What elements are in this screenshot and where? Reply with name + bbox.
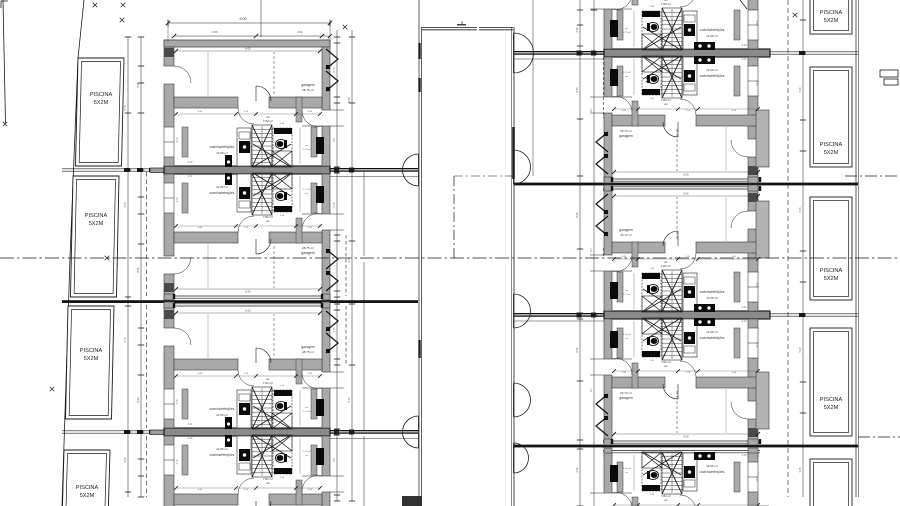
right pair 1 lower unit stair landing with cross bracing bbox=[642, 56, 662, 72]
svg-text:2.30: 2.30 bbox=[575, 27, 579, 33]
svg-text:9.15: 9.15 bbox=[347, 257, 351, 263]
left pair 1 upper unit garden wall dark block bbox=[164, 48, 174, 57]
svg-text:garagem: garagem bbox=[619, 134, 633, 138]
left pair 1 lower unit kitchen hob/sink unit at party wall bbox=[225, 173, 232, 185]
svg-text:PISCINA: PISCINA bbox=[76, 485, 99, 491]
svg-text:28.75 m²: 28.75 m² bbox=[302, 246, 314, 250]
svg-text:7.82 m²: 7.82 m² bbox=[661, 264, 671, 268]
left pair 1 lower unit staircase with treads and diagonals bbox=[252, 173, 291, 215]
right pair 2 lower unit kitchen hob/sink unit at party wall bbox=[694, 318, 715, 326]
right pair 1 lower unit closet partition at entry bbox=[617, 66, 623, 96]
svg-text:garagem: garagem bbox=[619, 228, 633, 232]
right plot fence at second party wall (east side) bbox=[758, 313, 858, 318]
svg-text:4.40: 4.40 bbox=[742, 454, 747, 457]
left pair 2 lower unit wc sink counter bbox=[274, 468, 292, 474]
left pair 1 lower unit closet duct block bbox=[316, 186, 324, 203]
left pair 2 lower unit kitchen counter with appliances bbox=[237, 436, 251, 474]
svg-text:arr.: arr. bbox=[625, 27, 629, 30]
right pool 3 (PISCINA 5X2M) bbox=[810, 197, 852, 300]
left pair 2 party wall bbox=[164, 428, 330, 436]
right lower extra unit staircase with treads and diagonals bbox=[643, 452, 682, 494]
left pair 1 upper unit closet partition bbox=[182, 127, 188, 157]
svg-text:PISCINA: PISCINA bbox=[90, 92, 113, 98]
svg-text:5X2M: 5X2M bbox=[84, 356, 99, 362]
svg-text:PISCINA: PISCINA bbox=[820, 268, 843, 274]
corridor west edge double line bbox=[418, 0, 420, 506]
right pair 1 lower unit corridor-side outer wall bbox=[604, 57, 612, 183]
svg-text:cozinha/refeições: cozinha/refeições bbox=[700, 336, 725, 340]
left pair 1 lower unit garage interior dimension line bbox=[176, 288, 320, 290]
right pair 2 upper unit kitchen counter with appliances bbox=[683, 273, 697, 311]
svg-text:5.10: 5.10 bbox=[798, 87, 802, 93]
svg-text:4.40: 4.40 bbox=[742, 306, 747, 309]
left pair 1 upper unit window shutters (sawtooth) on street wall bbox=[326, 49, 338, 91]
svg-text:3.10: 3.10 bbox=[176, 197, 179, 202]
right pair 1 upper unit entrance porch steps bbox=[590, 8, 604, 10]
left pair 1 upper unit garage interior dimension line bbox=[176, 50, 320, 52]
svg-text:1.70 m²: 1.70 m² bbox=[303, 188, 311, 191]
gate arc to left plot 2 bbox=[403, 416, 419, 448]
left building block bbox=[0, 0, 1, 1]
right pair 1 upper unit wc toilet bbox=[648, 22, 659, 31]
corridor east edge wall bar bbox=[512, 127, 515, 179]
left pair 2 lower unit garage interior door + swing arc bbox=[256, 501, 271, 506]
svg-text:7.82 m²: 7.82 m² bbox=[263, 119, 273, 123]
svg-text:28.75 m²: 28.75 m² bbox=[302, 88, 314, 92]
walkway edge line left court yard bbox=[363, 172, 365, 256]
left plot fence at first party wall (west side) bbox=[62, 168, 164, 173]
left pair 2 upper unit rooms interior dimension line bbox=[176, 375, 320, 377]
svg-text:8.06: 8.06 bbox=[683, 435, 689, 439]
right lower extra unit closet partition at entry bbox=[617, 462, 623, 492]
left pair 1 lower unit corridor-side outer wall bbox=[322, 174, 330, 300]
svg-text:wc: wc bbox=[664, 364, 668, 368]
right pair 2 upper unit closet partition at entry bbox=[617, 272, 623, 302]
svg-text:4.40: 4.40 bbox=[188, 175, 193, 178]
right pair 1 lower unit closet partition bbox=[734, 66, 740, 96]
svg-text:2.9: 2.9 bbox=[332, 458, 336, 462]
svg-text:12.06 m²: 12.06 m² bbox=[706, 68, 718, 72]
svg-text:9.7: 9.7 bbox=[589, 248, 593, 252]
right pair 1 lower unit garage centre dashed line bbox=[676, 129, 678, 171]
left pair 2 lower unit outer side wall (garden side) bbox=[164, 436, 174, 506]
right pair 1 lower unit kitchen counter with appliances bbox=[683, 57, 697, 95]
dimension chain left court inner bbox=[334, 30, 340, 501]
left pair 1 lower unit garage / rooms dividing wall bbox=[174, 232, 322, 243]
left pair 2 upper unit wc dashed enclosure bbox=[273, 390, 292, 428]
right pair 1 lower unit wc dashed enclosure bbox=[642, 57, 661, 95]
left pair 2 upper unit wc toilet bbox=[276, 401, 287, 410]
right lower extra unit wc dashed enclosure bbox=[642, 453, 661, 491]
svg-text:26.72 m²: 26.72 m² bbox=[620, 129, 632, 133]
left pair 1 upper unit corridor-side outer wall bbox=[322, 40, 330, 166]
svg-text:7.82 m²: 7.82 m² bbox=[661, 98, 671, 102]
dash-dot line corridor upper bbox=[454, 175, 514, 177]
right pair 2 upper unit outer side wall (garden side) bbox=[748, 185, 758, 311]
right pair 1 upper unit closet partition bbox=[734, 10, 740, 40]
right pair 1 upper unit hall/entry divider wall bbox=[632, 0, 638, 5]
right lower extra unit wc sink counter bbox=[642, 485, 660, 491]
left pair 2 lower unit rooms interior dimension line bbox=[176, 487, 320, 489]
left pair 1 upper unit garage side door swing bbox=[174, 66, 191, 83]
left pair 1 upper unit closet partition at entry bbox=[311, 127, 317, 157]
left pair 2 lower unit wc dashed enclosure bbox=[273, 436, 292, 474]
corridor west edge wall bars bbox=[418, 43, 420, 59]
right plot fence at second party wall (court side) bbox=[514, 313, 604, 318]
right pair 1 lower unit stair dimension line bbox=[671, 58, 673, 97]
right pair 2 lower unit staircase with treads and diagonals bbox=[643, 318, 682, 360]
svg-text:7.82 m²: 7.82 m² bbox=[263, 215, 273, 219]
left pair 2 upper unit wc sink counter bbox=[274, 390, 292, 396]
dashed plot line right of building bbox=[787, 0, 789, 497]
svg-text:garagem: garagem bbox=[301, 345, 315, 349]
right pair 2 lower unit closet duct block bbox=[610, 331, 618, 348]
right pair 1 lower unit staircase with treads and diagonals bbox=[643, 56, 682, 98]
svg-text:5X2M: 5X2M bbox=[80, 493, 95, 499]
right pair 2 lower unit wc dashed enclosure bbox=[642, 319, 661, 357]
chain dimension texts bbox=[123, 27, 802, 473]
dash-dot boundary segment right lower bbox=[858, 436, 900, 438]
right pair 2 lower unit outer side wall (garden side) bbox=[748, 319, 758, 445]
right pair 2 lower unit corridor-side outer wall bbox=[604, 319, 612, 445]
right pair 2 upper unit garden wall dark block bbox=[748, 193, 758, 202]
right pair 2 upper unit kitchen hob/sink unit at party wall bbox=[694, 304, 715, 312]
svg-text:3.10: 3.10 bbox=[176, 399, 179, 404]
svg-text:3.10: 3.10 bbox=[176, 137, 179, 142]
svg-text:5.75: 5.75 bbox=[123, 105, 127, 111]
right plot fence at first party wall (east side) bbox=[758, 51, 858, 56]
svg-text:1.70 m²: 1.70 m² bbox=[303, 148, 311, 151]
dashed divider in left court yard bbox=[345, 235, 347, 296]
right pair 2 upper unit wc toilet bbox=[648, 284, 659, 293]
right pair 1 lower unit garage interior door + swing arc bbox=[663, 122, 678, 137]
left pair 1 lower unit stair landing with cross bracing bbox=[272, 173, 292, 189]
svg-text:9.7: 9.7 bbox=[589, 388, 593, 392]
left pair 1 upper unit far end wall (garage front) bbox=[164, 40, 330, 47]
right lower extra unit closet duct block bbox=[610, 465, 618, 482]
right pair 2 upper unit hall/entry divider wall bbox=[632, 242, 638, 267]
right pool 2 (PISCINA 5X2M) bbox=[810, 67, 852, 167]
left pair 1 lower unit garden wall dark block bbox=[164, 283, 174, 292]
right pair 2 upper unit stair dimension line bbox=[671, 271, 673, 310]
right pair 1 upper unit staircase with treads and diagonals bbox=[643, 8, 682, 50]
left pair 2 upper unit window shutters (sawtooth) on street wall bbox=[326, 311, 338, 353]
right pair 2 lower unit rooms interior dimension line bbox=[614, 370, 758, 372]
right pair 2 lower unit stair dimension line bbox=[671, 320, 673, 359]
east boundary gate symbol bbox=[880, 70, 898, 85]
gate arc to right plot 4 bbox=[514, 383, 531, 417]
svg-text:1.70 m²: 1.70 m² bbox=[623, 467, 631, 470]
svg-text:5X2M: 5X2M bbox=[824, 150, 839, 156]
svg-text:wc: wc bbox=[266, 219, 270, 223]
svg-text:1.70 m²: 1.70 m² bbox=[623, 31, 631, 34]
svg-text:cozinha/refeições: cozinha/refeições bbox=[700, 290, 725, 294]
svg-text:5X2M: 5X2M bbox=[824, 405, 839, 411]
left pair 2 lower unit stair dimension line bbox=[261, 437, 263, 476]
svg-text:3.10: 3.10 bbox=[755, 21, 758, 26]
right pair 1 lower unit far end wall (garage front) bbox=[604, 177, 761, 183]
left pair 2 upper unit staircase with treads and diagonals bbox=[252, 387, 291, 429]
left pair 2 upper unit hall door to kitchen + swing arc bbox=[238, 370, 254, 386]
right pair 2 lower unit front entrance door swing bbox=[612, 358, 632, 375]
right pair 2 lower unit hall interior dimension line bbox=[633, 321, 635, 357]
svg-text:7.82 m²: 7.82 m² bbox=[661, 360, 671, 364]
right lower extra unit closet partition bbox=[734, 462, 740, 492]
svg-text:5.10: 5.10 bbox=[798, 347, 802, 353]
right pair 1 lower unit window shutters (sawtooth) on street wall bbox=[596, 132, 608, 174]
left pair 2 lower unit corridor-side outer wall bbox=[322, 436, 330, 506]
left pool 3 (PISCINA 5X2M) bbox=[66, 306, 115, 419]
right pair 1 lower unit garage / rooms dividing wall bbox=[612, 115, 760, 126]
right building extra lower unit top wall bbox=[604, 448, 760, 457]
dashed divider in left pool strip bbox=[146, 172, 148, 296]
left pair 1 lower unit hall interior dimension line bbox=[299, 176, 301, 212]
svg-text:cozinha/refeições: cozinha/refeições bbox=[210, 145, 235, 149]
svg-text:cozinha/refeições: cozinha/refeições bbox=[700, 470, 725, 474]
right pair 2 lower unit hall/entry divider wall bbox=[632, 363, 638, 388]
right pair 1 upper unit wc dashed enclosure bbox=[642, 11, 661, 49]
right pair 1 upper unit closet duct block bbox=[610, 20, 618, 37]
left pair 2 upper unit hall interior dimension line bbox=[299, 390, 301, 426]
right pair 2 upper unit garage / rooms dividing wall bbox=[612, 242, 760, 253]
left pair 1 lower unit kitchen counter with appliances bbox=[237, 174, 251, 212]
right pair 2 lower unit stair landing with cross bracing bbox=[642, 318, 662, 334]
svg-text:5.75: 5.75 bbox=[123, 337, 127, 343]
right pair 2 upper unit closet partition bbox=[734, 272, 740, 302]
svg-text:wc: wc bbox=[664, 102, 668, 106]
right lower extra unit outer side wall (garden side) bbox=[748, 453, 758, 506]
yard offset line below left party fence 1 bbox=[330, 176, 418, 178]
svg-text:3.10: 3.10 bbox=[123, 457, 127, 463]
corridor top cap bbox=[422, 22, 513, 30]
right pair 2 upper unit window shutters (sawtooth) on street wall bbox=[596, 194, 608, 236]
svg-text:8.06: 8.06 bbox=[245, 309, 251, 313]
svg-text:arr.: arr. bbox=[625, 337, 629, 340]
right pair 2 upper unit entrance porch steps bbox=[590, 270, 604, 272]
svg-text:8.06: 8.06 bbox=[683, 173, 689, 177]
right pair 1 lower unit outer side wall (garden side) bbox=[748, 57, 758, 183]
svg-text:PISCINA: PISCINA bbox=[820, 10, 843, 16]
pool enclosure east edge double line bbox=[855, 0, 857, 497]
right pair 1 lower unit entrance porch steps bbox=[590, 96, 604, 98]
left pair 2 upper unit closet duct block bbox=[316, 399, 324, 416]
right pair 1 lower unit rooms interior dimension line bbox=[614, 108, 758, 110]
yard offset line below left party fence 2 bbox=[330, 438, 418, 440]
left pair 1 upper unit kitchen hob/sink unit at party wall bbox=[225, 155, 232, 167]
right pair 2 upper unit stair landing with cross bracing bbox=[642, 296, 662, 312]
svg-text:9.7: 9.7 bbox=[589, 108, 593, 112]
svg-text:5X2M: 5X2M bbox=[824, 18, 839, 24]
left pair 2 lower unit hall/entry divider wall bbox=[296, 480, 302, 505]
left pair 1 lower unit closet partition at entry bbox=[311, 183, 317, 213]
svg-text:cozinha/refeições: cozinha/refeições bbox=[210, 453, 235, 457]
svg-text:cozinha/refeições: cozinha/refeições bbox=[210, 407, 235, 411]
right pair 2 lower unit garage centre dashed line bbox=[676, 391, 678, 433]
left pair 1 upper unit wc dashed enclosure bbox=[273, 128, 292, 166]
svg-text:garagem: garagem bbox=[301, 83, 315, 87]
survey cross near right pool 1 bbox=[793, 13, 798, 18]
left pair 2 upper unit outer side wall (garden side) bbox=[164, 302, 174, 428]
right lower extra unit hall door to kitchen + swing arc bbox=[680, 495, 696, 506]
right boundary fence at lower garages (heavy) bbox=[514, 445, 858, 448]
svg-text:wc: wc bbox=[664, 498, 668, 502]
svg-text:8.06: 8.06 bbox=[245, 47, 251, 51]
walkway edge line right court yard bbox=[532, 0, 534, 176]
left pair 1 lower unit hall/entry divider wall bbox=[296, 218, 302, 243]
right pair 2 upper unit garage interior dimension line bbox=[614, 195, 758, 197]
left pair 2 upper unit closet partition bbox=[182, 389, 188, 419]
svg-text:1.70 m²: 1.70 m² bbox=[623, 71, 631, 74]
right pair 1 lower unit garden porch stub wall bbox=[756, 110, 769, 167]
left pair 2 lower unit wc toilet bbox=[276, 453, 287, 462]
right lower extra unit rooms interior dimension line bbox=[614, 504, 758, 506]
right pair 1 upper unit kitchen hob/sink unit at party wall bbox=[694, 42, 715, 50]
svg-text:arr.: arr. bbox=[625, 289, 629, 292]
left pair 2 lower unit staircase with treads and diagonals bbox=[252, 435, 291, 477]
right pair 2 upper unit far end wall (garage front) bbox=[604, 185, 761, 191]
left pair 1 upper unit kitchen counter with appliances bbox=[237, 128, 251, 166]
svg-text:4.40: 4.40 bbox=[742, 44, 747, 47]
left pair 1 lower unit front entrance door swing bbox=[302, 213, 322, 230]
right pair 2 lower unit garage interior door + swing arc bbox=[663, 384, 678, 399]
right lower extra unit interior dimension annotations bbox=[622, 454, 758, 506]
left pair 1 upper unit stair landing with cross bracing bbox=[272, 151, 292, 167]
right pair 2 upper unit garage centre dashed line bbox=[676, 197, 678, 239]
dash-dot axis vertical in corridor bbox=[453, 176, 455, 258]
svg-text:2.9: 2.9 bbox=[332, 138, 336, 142]
right pair 2 upper unit rooms interior dimension line bbox=[614, 258, 758, 260]
svg-text:8.35: 8.35 bbox=[136, 82, 140, 88]
left pool 2 (PISCINA 5X2M) bbox=[71, 176, 120, 297]
right pair 1 upper unit hall door to kitchen + swing arc bbox=[680, 0, 696, 7]
svg-text:6.45: 6.45 bbox=[575, 212, 579, 218]
left pair 2 upper unit garage interior dimension line bbox=[176, 312, 320, 314]
svg-text:wc: wc bbox=[266, 481, 270, 485]
left pair 1 lower unit wc toilet bbox=[276, 191, 287, 200]
gate arc to right plot 5 bbox=[514, 443, 529, 473]
svg-text:PISCINA: PISCINA bbox=[85, 213, 108, 219]
survey cross at road edge end bbox=[3, 122, 8, 127]
right pool 1 (PISCINA 5X2M) bbox=[810, 0, 852, 34]
svg-text:1.70 m²: 1.70 m² bbox=[303, 410, 311, 413]
svg-text:12.06 m²: 12.06 m² bbox=[706, 464, 718, 468]
gate arc to left plot 1 bbox=[403, 154, 419, 186]
right pair 1 upper unit stair landing with cross bracing bbox=[642, 34, 662, 50]
left pair 2 lower unit kitchen hob/sink unit at party wall bbox=[225, 435, 232, 447]
svg-text:arr.: arr. bbox=[625, 75, 629, 78]
left pair 2 lower unit entrance porch steps bbox=[330, 475, 344, 477]
left pair 2 upper unit far end wall (garage front) bbox=[164, 302, 330, 308]
left pair 1 lower unit entrance porch steps bbox=[330, 213, 344, 215]
svg-text:5X2M: 5X2M bbox=[824, 276, 839, 282]
svg-text:garagem: garagem bbox=[301, 251, 315, 255]
svg-text:3.10: 3.10 bbox=[123, 202, 127, 208]
left pair 2 lower unit hall interior dimension line bbox=[299, 438, 301, 474]
right lower extra unit stair dimension line bbox=[671, 454, 673, 493]
right pair 2 upper unit front entrance door swing bbox=[612, 255, 632, 272]
extension line from party axis to top edge bbox=[260, 0, 262, 37]
svg-text:3.10: 3.10 bbox=[755, 81, 758, 86]
corridor east edge double line bbox=[511, 27, 513, 506]
survey cross near building top right bbox=[343, 25, 348, 30]
left pair 1 upper unit hall door to kitchen + swing arc bbox=[238, 108, 254, 124]
svg-text:5.75: 5.75 bbox=[332, 202, 336, 208]
left pair 2 lower unit garage / rooms dividing wall bbox=[174, 494, 322, 505]
left pair 1 upper unit rooms interior dimension line bbox=[176, 113, 320, 115]
left pair 2 upper unit garage centre dashed line bbox=[273, 314, 275, 356]
svg-text:12.06 m²: 12.06 m² bbox=[706, 330, 718, 334]
right pair 2 lower unit entrance porch steps bbox=[590, 358, 604, 360]
boundary tick top right corner bbox=[740, 0, 747, 9]
gate arc to right plot 1 bbox=[514, 33, 534, 73]
right pair 1 upper unit front entrance door swing bbox=[612, 0, 632, 10]
right pair 1 upper unit corridor-side outer wall bbox=[604, 0, 612, 49]
main dash-dot site axis horizontal bbox=[0, 257, 900, 259]
dash-dot boundary segment right at first party level bbox=[845, 175, 900, 177]
left pair 1 upper unit staircase with treads and diagonals bbox=[252, 125, 291, 167]
left pair 2 upper unit stair landing with cross bracing bbox=[272, 413, 292, 429]
svg-text:4.40: 4.40 bbox=[742, 320, 747, 323]
right pair 1 lower unit garage interior dimension line bbox=[614, 171, 758, 173]
right pair 2 lower unit window shutters (sawtooth) on street wall bbox=[596, 394, 608, 436]
svg-text:3.10: 3.10 bbox=[755, 477, 758, 482]
left pair 1 upper unit outer side wall (garden side) bbox=[164, 40, 174, 166]
svg-text:3.15: 3.15 bbox=[798, 207, 802, 213]
svg-text:5X2M: 5X2M bbox=[94, 100, 109, 106]
right pair 2 lower unit wc sink counter bbox=[642, 351, 660, 357]
right pool 5 (PISCINA 5X2M) bbox=[810, 459, 852, 506]
right pair 2 party wall bbox=[604, 311, 770, 319]
left pool 1 (PISCINA 5X2M) bbox=[76, 58, 125, 166]
svg-text:26.72 m²: 26.72 m² bbox=[620, 233, 632, 237]
left pair 1 lower unit closet partition bbox=[182, 183, 188, 213]
right pair 1 lower unit wc sink counter bbox=[642, 89, 660, 95]
right pair 2 upper unit staircase with treads and diagonals bbox=[643, 270, 682, 312]
dimension chain right court inner bbox=[577, 0, 583, 506]
svg-text:PISCINA: PISCINA bbox=[820, 397, 843, 403]
right pair 2 lower unit garden wall dark block bbox=[748, 428, 758, 437]
left pair 1 party wall bbox=[164, 166, 330, 174]
left pair 1 upper unit front entrance door swing bbox=[302, 110, 322, 127]
right boundary fence between garages (heavy) bbox=[514, 183, 858, 186]
svg-text:garagem: garagem bbox=[619, 396, 633, 400]
gate arc to right plot 2 bbox=[514, 150, 531, 184]
left pair 2 upper unit kitchen hob/sink unit at party wall bbox=[225, 417, 232, 429]
gate arc to right plot 3 bbox=[514, 294, 531, 328]
svg-text:5.75: 5.75 bbox=[332, 327, 336, 333]
left pair 1 upper unit garage centre dashed line bbox=[273, 52, 275, 94]
left pair 2 lower unit hall door to kitchen + swing arc bbox=[238, 478, 254, 494]
svg-text:9.15: 9.15 bbox=[347, 97, 351, 103]
right pair 2 upper unit garage side door swing bbox=[731, 211, 748, 228]
left pair 1 upper unit wc toilet bbox=[276, 139, 287, 148]
dimension chain west inner bbox=[138, 37, 144, 497]
svg-text:1.70 m²: 1.70 m² bbox=[623, 333, 631, 336]
svg-text:12.66 m²: 12.66 m² bbox=[216, 185, 228, 189]
svg-text:arr.: arr. bbox=[305, 192, 309, 195]
svg-text:5.75: 5.75 bbox=[332, 67, 336, 73]
left pair 1 lower unit garage interior door + swing arc bbox=[256, 239, 271, 254]
corridor bottom gate post bbox=[402, 496, 422, 506]
left pair 1 lower unit window shutters (sawtooth) on street wall bbox=[326, 249, 338, 291]
svg-text:12.06 m²: 12.06 m² bbox=[706, 296, 718, 300]
right pair 2 lower unit far end wall (garage front) bbox=[604, 439, 761, 445]
dimension chain west outer bbox=[125, 37, 131, 497]
left pool 4 (PISCINA 5X2M) bbox=[62, 450, 111, 506]
left pair 1 lower unit far end wall (garage front) bbox=[164, 294, 330, 300]
svg-text:8.06: 8.06 bbox=[683, 192, 689, 196]
svg-text:28.75 m²: 28.75 m² bbox=[302, 350, 314, 354]
